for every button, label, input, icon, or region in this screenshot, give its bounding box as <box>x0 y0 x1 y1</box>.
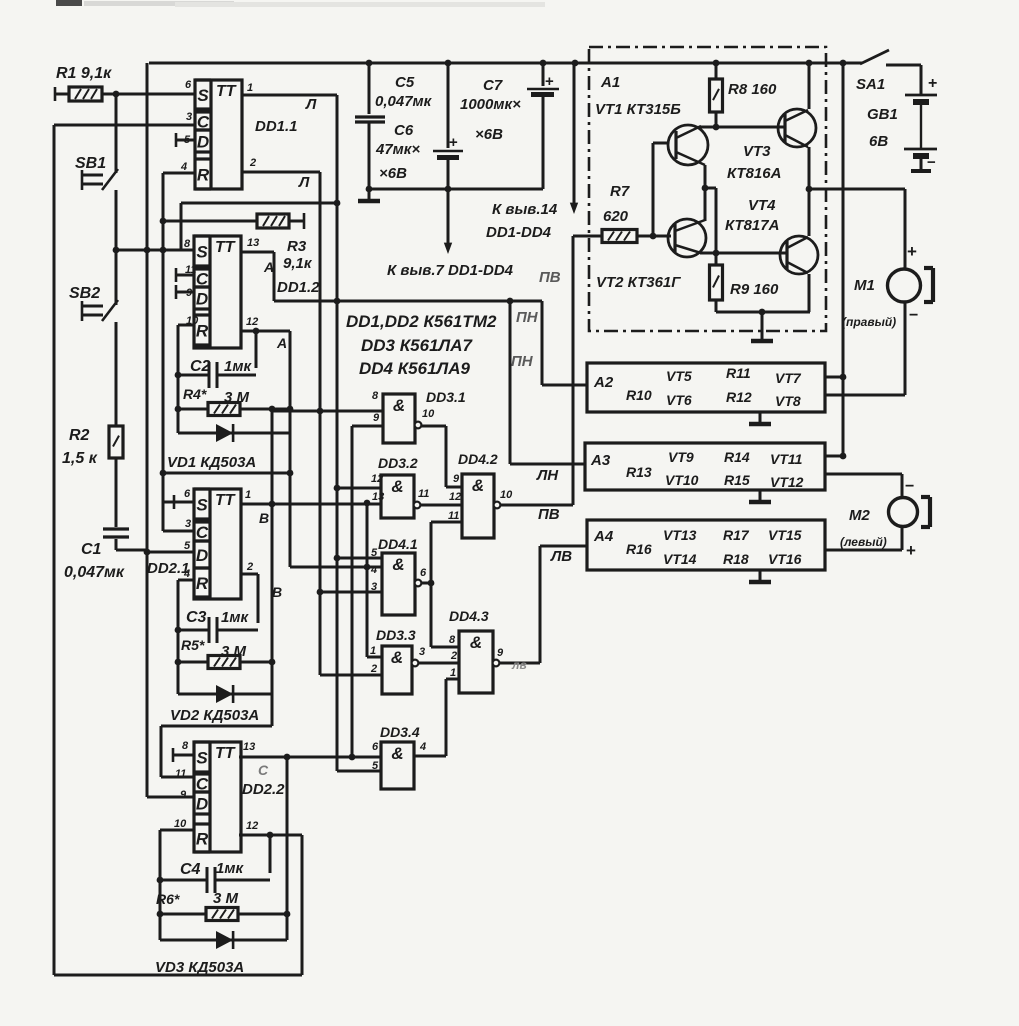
svg-text:A1: A1 <box>600 74 620 91</box>
svg-text:C5: C5 <box>395 74 415 91</box>
svg-text:3: 3 <box>371 581 377 593</box>
svg-text:VT2 КТ361Г: VT2 КТ361Г <box>596 274 681 291</box>
svg-text:VT1 КТ315Б: VT1 КТ315Б <box>595 101 681 118</box>
svg-text:DD1.1: DD1.1 <box>255 118 298 135</box>
svg-text:4: 4 <box>370 564 377 576</box>
svg-text:TT: TT <box>216 83 237 100</box>
svg-text:В: В <box>272 584 282 600</box>
svg-text:DD4.3: DD4.3 <box>449 608 489 624</box>
svg-text:R16: R16 <box>626 541 652 557</box>
svg-text:0,047мк: 0,047мк <box>375 93 433 110</box>
svg-text:1,5 к: 1,5 к <box>62 450 98 467</box>
svg-text:&: & <box>392 555 404 574</box>
svg-text:9: 9 <box>497 647 504 659</box>
svg-text:R7: R7 <box>610 183 630 200</box>
svg-text:1: 1 <box>245 489 251 501</box>
svg-text:12: 12 <box>371 473 383 485</box>
svg-text:К выв.14: К выв.14 <box>492 201 558 218</box>
svg-text:A4: A4 <box>593 528 614 545</box>
svg-text:C7: C7 <box>483 77 503 94</box>
svg-text:VT15: VT15 <box>768 527 802 543</box>
svg-text:VT12: VT12 <box>770 474 804 490</box>
svg-text:C: C <box>258 762 269 778</box>
svg-text:VT4: VT4 <box>748 197 776 214</box>
svg-text:&: & <box>391 648 403 667</box>
svg-text:3: 3 <box>186 111 192 123</box>
svg-text:(правый): (правый) <box>842 315 896 329</box>
svg-text:3: 3 <box>419 646 425 658</box>
svg-text:12: 12 <box>246 316 258 328</box>
svg-text:1: 1 <box>370 645 376 657</box>
svg-text:VT7: VT7 <box>775 370 802 386</box>
svg-text:VT8: VT8 <box>775 393 801 409</box>
svg-text:2: 2 <box>370 663 377 675</box>
svg-text:620: 620 <box>603 208 629 225</box>
svg-text:VD2 КД503А: VD2 КД503А <box>170 707 259 724</box>
svg-text:S: S <box>196 243 208 262</box>
svg-text:TT: TT <box>215 745 236 762</box>
svg-text:R4*: R4* <box>183 386 207 402</box>
svg-text:0,047мк: 0,047мк <box>64 564 125 581</box>
svg-text:2: 2 <box>450 650 457 662</box>
svg-text:&: & <box>472 476 484 495</box>
svg-text:ПН: ПН <box>511 353 534 370</box>
svg-text:ПВ: ПВ <box>539 269 561 286</box>
svg-text:2: 2 <box>246 561 253 573</box>
svg-text:R12: R12 <box>726 389 752 405</box>
svg-text:R17: R17 <box>723 527 750 543</box>
svg-text:6: 6 <box>420 567 427 579</box>
svg-text:A3: A3 <box>590 452 611 469</box>
svg-text:6: 6 <box>372 741 379 753</box>
svg-text:(левый): (левый) <box>840 535 887 549</box>
svg-text:C6: C6 <box>394 122 414 139</box>
svg-text:D: D <box>196 290 208 309</box>
svg-text:R10: R10 <box>626 387 652 403</box>
svg-text:6В: 6В <box>869 133 888 150</box>
svg-text:D: D <box>197 133 209 152</box>
svg-text:M1: M1 <box>854 277 875 294</box>
svg-text:Л: Л <box>305 96 317 113</box>
svg-text:VD1 КД503А: VD1 КД503А <box>167 454 256 471</box>
svg-text:А: А <box>276 335 287 351</box>
svg-text:8: 8 <box>184 238 191 250</box>
svg-text:1: 1 <box>247 82 253 94</box>
svg-text:+: + <box>906 541 916 560</box>
svg-text:M2: M2 <box>849 507 870 524</box>
svg-text:2: 2 <box>249 157 256 169</box>
svg-text:12: 12 <box>246 820 258 832</box>
svg-text:9: 9 <box>453 473 460 485</box>
svg-text:TT: TT <box>215 492 236 509</box>
svg-text:VT16: VT16 <box>768 551 802 567</box>
svg-text:DD4 К561ЛА9: DD4 К561ЛА9 <box>359 359 471 378</box>
svg-text:R5*: R5* <box>181 637 205 653</box>
svg-text:КТ817А: КТ817А <box>725 217 779 234</box>
svg-text:13: 13 <box>372 491 384 503</box>
svg-text:R3: R3 <box>287 238 307 255</box>
svg-text:Л: Л <box>298 174 310 191</box>
svg-text:C: C <box>196 523 209 542</box>
svg-text:VT3: VT3 <box>743 143 771 160</box>
svg-text:11: 11 <box>418 488 429 500</box>
svg-text:VT5: VT5 <box>666 368 692 384</box>
svg-text:А: А <box>263 259 274 275</box>
svg-text:11: 11 <box>448 510 459 522</box>
svg-text:R13: R13 <box>626 464 652 480</box>
svg-text:В: В <box>259 510 269 526</box>
svg-text:3: 3 <box>185 518 191 530</box>
svg-text:DD3.4: DD3.4 <box>380 724 420 740</box>
svg-text:6: 6 <box>185 79 192 91</box>
svg-text:5: 5 <box>184 540 191 552</box>
svg-text:S: S <box>196 496 208 515</box>
svg-text:A2: A2 <box>593 374 614 391</box>
svg-text:9: 9 <box>180 789 187 801</box>
svg-text:11: 11 <box>175 768 186 780</box>
svg-text:C1: C1 <box>81 541 102 558</box>
svg-text:R1 9,1к: R1 9,1к <box>56 65 112 82</box>
svg-text:КТ816А: КТ816А <box>727 165 781 182</box>
svg-text:5: 5 <box>372 760 379 772</box>
svg-text:6: 6 <box>184 488 191 500</box>
svg-text:VT6: VT6 <box>666 392 692 408</box>
svg-text:9: 9 <box>186 287 193 299</box>
svg-text:SA1: SA1 <box>856 76 885 93</box>
svg-text:9,1к: 9,1к <box>283 255 313 272</box>
svg-text:8: 8 <box>449 634 456 646</box>
svg-text:R15: R15 <box>724 472 750 488</box>
svg-text:C3: C3 <box>186 609 207 626</box>
svg-text:×6В: ×6В <box>475 126 503 143</box>
svg-text:&: & <box>393 396 405 415</box>
svg-text:10: 10 <box>186 315 199 327</box>
svg-text:VD3 КД503А: VD3 КД503А <box>155 959 244 976</box>
svg-text:1000мк×: 1000мк× <box>460 96 521 113</box>
svg-text:DD3 К561ЛА7: DD3 К561ЛА7 <box>361 336 474 355</box>
svg-text:1мк: 1мк <box>221 609 249 626</box>
svg-text:10: 10 <box>422 408 435 420</box>
svg-text:1мк: 1мк <box>216 860 244 877</box>
svg-text:ЛН: ЛН <box>536 467 559 484</box>
svg-text:4: 4 <box>419 741 426 753</box>
svg-text:+: + <box>928 75 937 92</box>
svg-text:1: 1 <box>450 667 456 679</box>
svg-text:R: R <box>197 166 210 185</box>
svg-text:3 М: 3 М <box>224 389 250 406</box>
svg-text:4: 4 <box>183 568 190 580</box>
svg-text:13: 13 <box>243 741 255 753</box>
svg-text:VT9: VT9 <box>668 449 694 465</box>
svg-text:&: & <box>391 477 403 496</box>
svg-text:C4: C4 <box>180 861 201 878</box>
svg-text:1мк: 1мк <box>224 358 252 375</box>
svg-text:DD1,DD2 К561ТМ2: DD1,DD2 К561ТМ2 <box>346 312 497 331</box>
svg-text:8: 8 <box>372 390 379 402</box>
svg-text:VT11: VT11 <box>770 451 803 467</box>
svg-text:ЛВ: ЛВ <box>550 548 572 565</box>
svg-text:R8 160: R8 160 <box>728 81 777 98</box>
svg-text:DD3.2: DD3.2 <box>378 455 418 471</box>
svg-text:VT14: VT14 <box>663 551 697 567</box>
svg-text:47мк×: 47мк× <box>375 141 420 158</box>
svg-text:SB2: SB2 <box>69 285 100 302</box>
svg-text:VT10: VT10 <box>665 472 699 488</box>
svg-text:&: & <box>470 633 482 652</box>
svg-text:R: R <box>196 830 209 849</box>
svg-text:5: 5 <box>184 134 191 146</box>
svg-text:ПН: ПН <box>516 309 539 326</box>
svg-text:3 М: 3 М <box>221 643 247 660</box>
svg-text:R11: R11 <box>726 365 751 381</box>
svg-text:DD1-DD4: DD1-DD4 <box>486 224 552 241</box>
svg-text:4: 4 <box>180 161 187 173</box>
svg-text:10: 10 <box>174 818 187 830</box>
svg-text:13: 13 <box>247 237 259 249</box>
svg-text:R14: R14 <box>724 449 750 465</box>
svg-text:+: + <box>907 242 917 261</box>
svg-text:DD4.2: DD4.2 <box>458 451 498 467</box>
svg-text:GB1: GB1 <box>867 106 898 123</box>
svg-text:−: − <box>927 154 936 171</box>
svg-text:−: − <box>905 478 914 495</box>
svg-text:DD1.2: DD1.2 <box>277 279 320 296</box>
svg-text:8: 8 <box>182 740 189 752</box>
svg-text:DD3.1: DD3.1 <box>426 389 466 405</box>
svg-text:DD3.3: DD3.3 <box>376 627 416 643</box>
svg-text:R9 160: R9 160 <box>730 281 779 298</box>
svg-text:R6*: R6* <box>156 891 180 907</box>
svg-text:лв: лв <box>511 658 527 672</box>
svg-text:10: 10 <box>500 489 513 501</box>
svg-text:ПВ: ПВ <box>538 506 560 523</box>
svg-text:D: D <box>196 795 208 814</box>
svg-text:SB1: SB1 <box>75 155 106 172</box>
svg-text:D: D <box>196 546 208 565</box>
svg-text:R18: R18 <box>723 551 749 567</box>
svg-text:TT: TT <box>215 239 236 256</box>
svg-text:&: & <box>391 744 403 763</box>
svg-text:S: S <box>196 749 208 768</box>
svg-text:×6В: ×6В <box>379 165 407 182</box>
svg-text:5: 5 <box>371 547 378 559</box>
svg-text:11: 11 <box>185 264 196 276</box>
svg-text:+: + <box>545 73 554 90</box>
svg-text:12: 12 <box>449 491 461 503</box>
svg-text:VT13: VT13 <box>663 527 697 543</box>
svg-text:R2: R2 <box>69 427 90 444</box>
svg-text:DD4.1: DD4.1 <box>378 536 418 552</box>
svg-text:+: + <box>449 134 458 151</box>
svg-text:9: 9 <box>373 412 380 424</box>
svg-text:R: R <box>196 574 209 593</box>
svg-text:К выв.7 DD1-DD4: К выв.7 DD1-DD4 <box>387 262 514 279</box>
svg-text:S: S <box>197 86 209 105</box>
svg-text:DD2.2: DD2.2 <box>242 781 285 798</box>
svg-text:−: − <box>909 307 918 324</box>
svg-text:C2: C2 <box>190 358 211 375</box>
svg-text:3 М: 3 М <box>213 890 239 907</box>
